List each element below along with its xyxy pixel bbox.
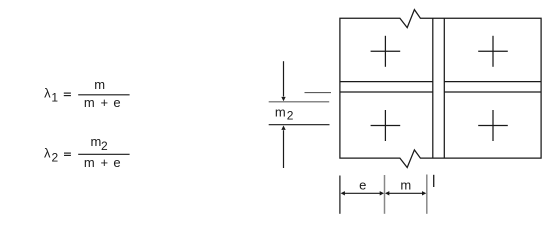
svg-text:m: m	[400, 178, 411, 193]
svg-text:e: e	[359, 178, 366, 193]
svg-text:m: m	[94, 77, 105, 92]
svg-text:1: 1	[51, 90, 58, 104]
svg-text:2: 2	[52, 150, 59, 164]
svg-text:m: m	[84, 95, 95, 110]
svg-text:2: 2	[287, 109, 294, 123]
svg-text:m: m	[91, 134, 102, 149]
svg-text:m: m	[275, 105, 286, 120]
svg-text:λ: λ	[44, 145, 51, 160]
svg-text:e: e	[113, 95, 120, 110]
svg-text:+: +	[101, 95, 109, 110]
svg-text:2: 2	[101, 139, 108, 153]
svg-text:+: +	[101, 155, 109, 170]
svg-text:m: m	[84, 155, 95, 170]
svg-text:λ: λ	[44, 85, 51, 100]
svg-text:e: e	[113, 155, 120, 170]
